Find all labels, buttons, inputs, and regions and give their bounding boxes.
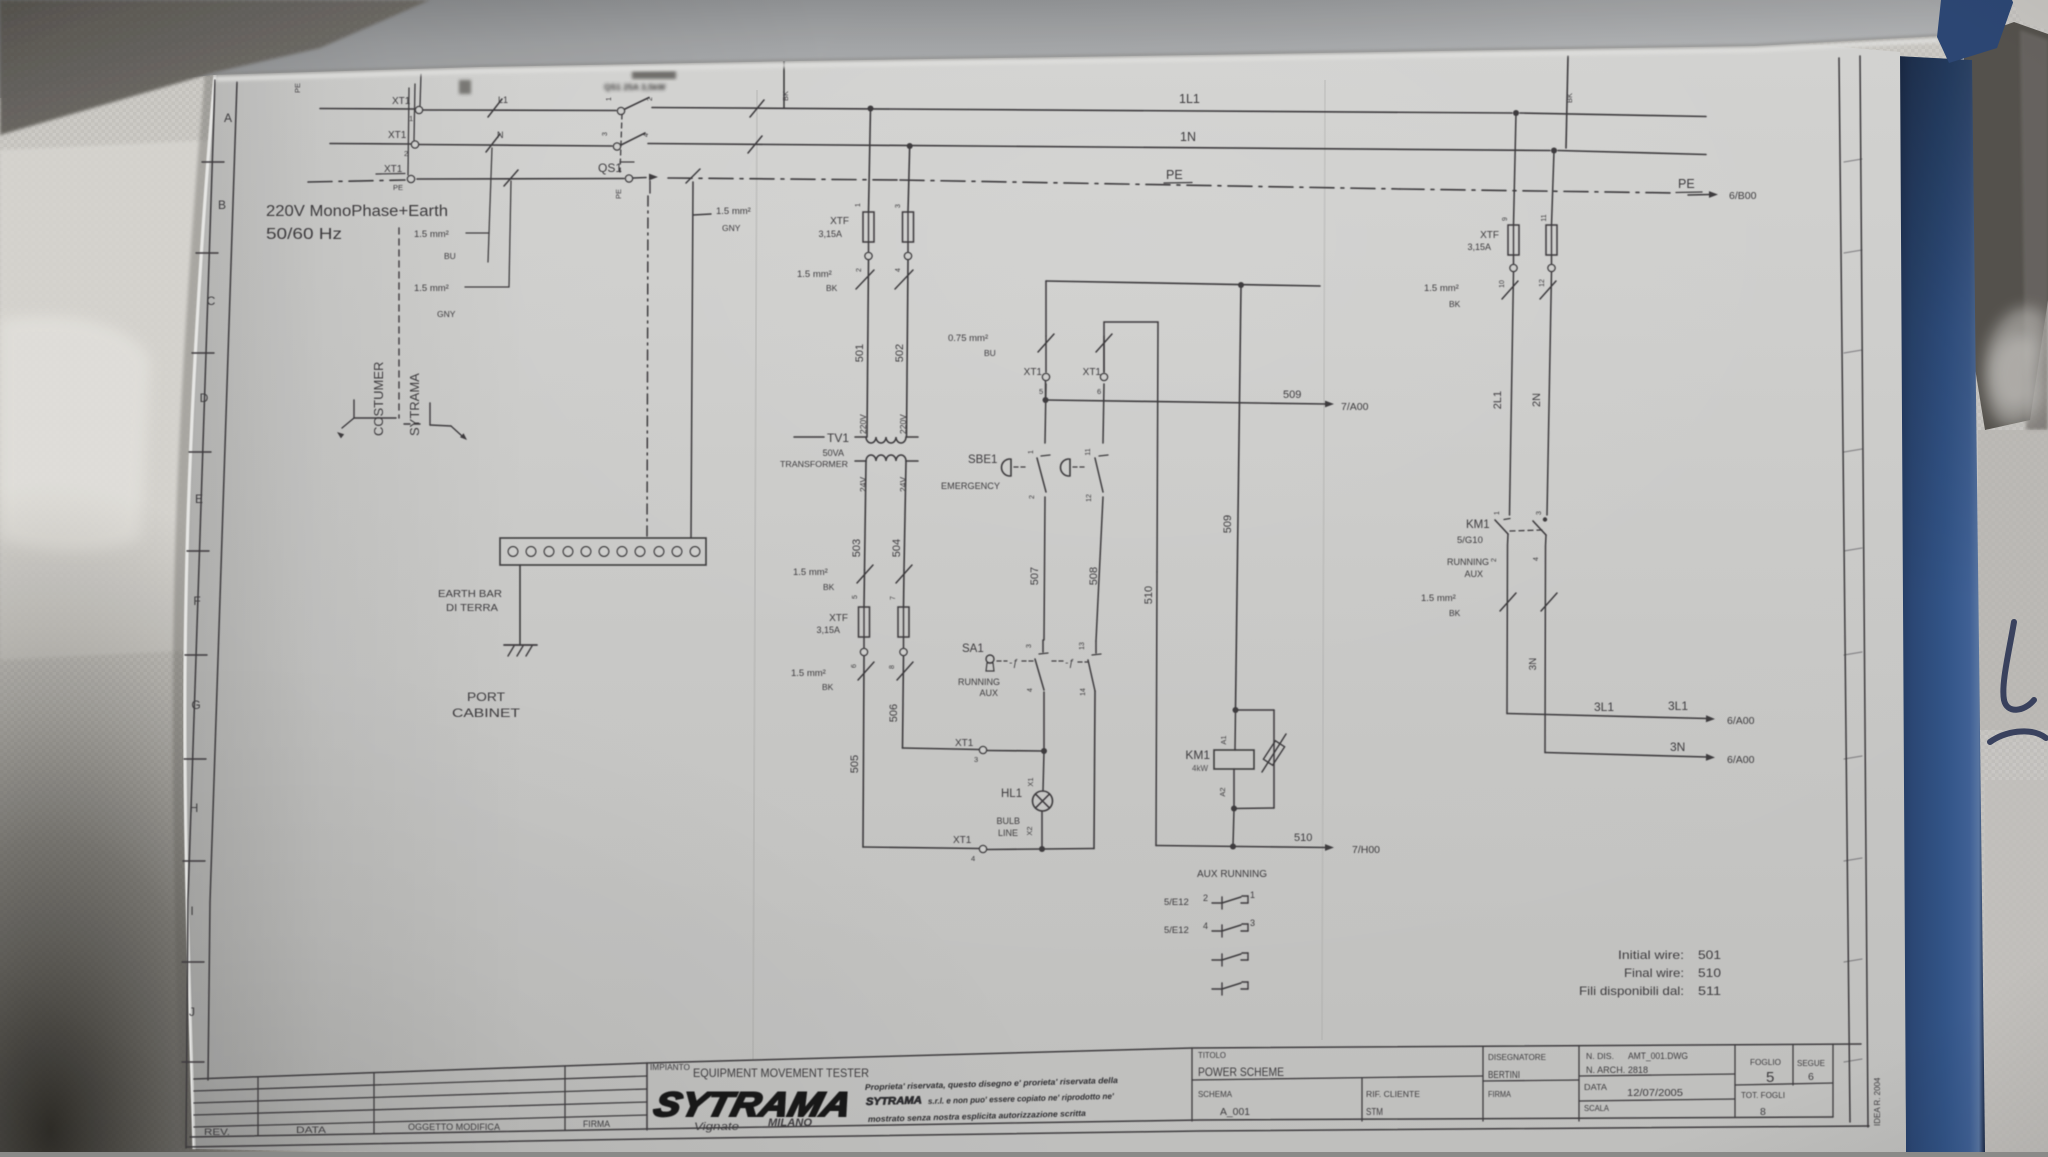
ground symbol <box>504 644 537 646</box>
fuse XTF 3,15A lower pair <box>863 570 866 607</box>
wire 504 <box>904 461 906 570</box>
wire 2N lower <box>1545 535 1546 753</box>
wire 503 <box>865 461 867 570</box>
slash mark N <box>486 134 500 152</box>
wire 510 horizontal to 7/H00 <box>1156 846 1326 848</box>
wire 505 horizontal to XT1-4 <box>863 847 979 849</box>
white curled corner <box>2012 0 2048 30</box>
row letters A-J <box>189 111 232 1019</box>
SA1 contact 13-14 <box>1088 660 1095 691</box>
node junction 509 top <box>1238 282 1244 288</box>
smudge marks cut by page curl <box>459 80 471 94</box>
terminal circles under fuses <box>868 242 870 253</box>
wire 509 horizontal to 7/A00 <box>1043 397 1049 403</box>
terminal XT1-PE <box>407 175 414 182</box>
wire 510 vertical <box>1156 572 1157 846</box>
node junction 1L1/2L1 <box>1513 110 1519 116</box>
node junction lamp/SA1 <box>1041 748 1047 754</box>
fuse XTF 3,15A right pair <box>1508 225 1519 255</box>
blue binder corner top right <box>1937 0 2014 63</box>
QS1 mechanical link (dashed) <box>620 114 622 172</box>
wire 509 vertical <box>1236 285 1242 709</box>
title centre cell IMPIANTO <box>646 1063 648 1130</box>
wire XT1-6 feed <box>1104 322 1158 572</box>
node junction KM1 top <box>1233 707 1239 713</box>
wire 507 (XT1-5 to SA1) <box>1045 384 1046 443</box>
wire bus PE (dash-dot) <box>308 180 405 182</box>
SBE1 contact 11-12 <box>1099 455 1108 456</box>
cable spec 1.5mm2 GNY <box>509 181 511 287</box>
wire 2N top <box>1552 151 1555 225</box>
wire 2N vertical <box>1547 272 1552 515</box>
GNY wire drop to earth bar <box>691 182 693 538</box>
contactor coil KM1 <box>1234 710 1237 750</box>
title block top line <box>194 1044 1861 1079</box>
node junction 1N/2N <box>1551 148 1557 154</box>
switch QS1 pole 1 <box>617 107 624 114</box>
slash marks 503/504 <box>857 565 873 583</box>
fuse XTF 3,15A left pair <box>863 212 874 242</box>
row letter ticks right <box>1844 159 1862 1062</box>
slash + spec 1.5mm2 GNY on PE tap <box>686 169 700 183</box>
wire bus 1L1 <box>320 108 415 111</box>
terminal XT1-1 <box>415 106 422 113</box>
wire stub above XT1-PE <box>408 88 409 175</box>
terminal XT1-6 <box>1103 336 1105 372</box>
terminal XT1-2 <box>411 141 418 148</box>
revision table <box>194 1063 647 1136</box>
frame left border <box>186 80 215 1148</box>
frame bottom border <box>190 1117 1833 1137</box>
wire 2L1 vertical <box>1510 272 1514 515</box>
cable spec 1.5mm2 BU <box>489 148 492 233</box>
boundary marker left <box>353 400 355 418</box>
slash mark PE <box>504 170 518 186</box>
boundary dashed line COSTUMER/SYTRAMA <box>398 228 400 418</box>
wire 508 (XT1-6 to SA1) <box>1103 384 1104 443</box>
wire stub above XT1-1 <box>420 74 421 106</box>
slash mark after QS1 L1 <box>750 100 764 117</box>
blue binder spine <box>1896 56 1985 1152</box>
wire 2L1 lower <box>1507 534 1508 714</box>
SBE1 contact 1-2 <box>1041 455 1050 456</box>
PE continuation arrow after QS1 <box>633 177 646 180</box>
titolo cells <box>1192 1044 1833 1121</box>
wire to SA1 corner <box>1042 848 1094 851</box>
row letter ticks left <box>182 162 224 1062</box>
wire stub above 1N x1567 <box>1566 56 1568 148</box>
wire KM1 to 510 <box>1233 809 1234 846</box>
curled page band at top <box>0 0 1951 98</box>
slash mark L1 <box>488 99 502 117</box>
node junction 1L1/501 <box>868 106 874 112</box>
SA1 contact 3-4 <box>1043 692 1045 751</box>
node junction 1N/502 <box>907 143 913 149</box>
slash marks 505/506 <box>858 662 874 680</box>
wire 3N to 6/A00 <box>1545 753 1707 758</box>
wire 502 (top) <box>908 146 910 212</box>
switch QS1 pole 2 <box>613 143 620 150</box>
wire XT1-5 feed from 1L1 drop <box>1045 281 1047 336</box>
aux contact spare row3 <box>1212 959 1222 961</box>
slash marks below KM1 <box>1500 593 1516 611</box>
transformer TV1 50VA <box>794 436 824 438</box>
wire stub above 1L1 x784 <box>783 60 785 108</box>
slash marks 501/502 <box>856 270 874 289</box>
node junction KM1 bottom <box>1231 806 1237 812</box>
terminal XT1-5 <box>1045 336 1047 372</box>
lamp HL1 <box>1043 751 1044 791</box>
varistor branch <box>1236 709 1275 711</box>
wire earth bar to ground <box>519 565 521 645</box>
aux contact spare row4 <box>1212 988 1222 990</box>
wire 2L1 top <box>1514 113 1517 225</box>
label QS1 rating (smudged) <box>604 82 667 92</box>
earth bar EARTH BAR DI TERRA <box>500 538 706 565</box>
wire 505 vertical <box>863 656 864 847</box>
PE dash-dot drop to earth bar <box>647 196 648 538</box>
slash mark after QS1 N <box>748 136 762 153</box>
wire 502 to transformer <box>907 260 909 437</box>
wire 501 (top) <box>869 109 871 213</box>
wire 3L1 to 6/A00 <box>1507 714 1707 719</box>
slash marks 2L1/2N <box>1502 281 1518 299</box>
wire 506 vertical <box>903 656 904 748</box>
frame right border <box>1839 58 1850 1122</box>
proprietary text <box>865 1075 1119 1124</box>
wire 506 horizontal to XT1-3 <box>903 748 980 750</box>
wire stub above XT1-2 <box>414 84 415 140</box>
wire bus 1N <box>330 143 411 146</box>
slash marks 0.75mm2 <box>1038 334 1054 352</box>
node junction lamp bottom <box>1039 846 1045 852</box>
SYTRAMA logo <box>650 1085 856 1123</box>
handwritten mark on cloth <box>1990 622 2046 742</box>
wire 501 to transformer <box>867 260 869 437</box>
boundary marker right <box>404 423 424 425</box>
